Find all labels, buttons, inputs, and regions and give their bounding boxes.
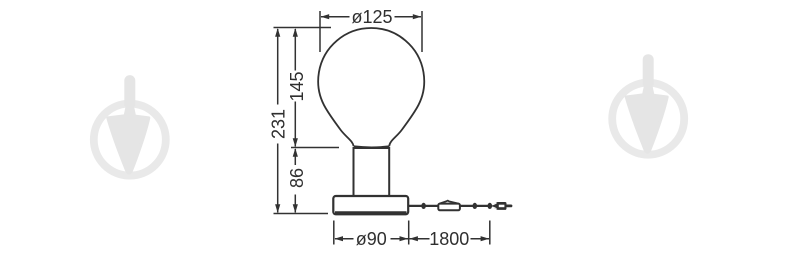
svg-text:145: 145 <box>287 71 307 101</box>
svg-text:86: 86 <box>287 168 307 188</box>
svg-text:ø90: ø90 <box>356 229 387 249</box>
svg-text:ø125: ø125 <box>351 7 392 27</box>
svg-text:1800: 1800 <box>429 229 469 249</box>
svg-text:231: 231 <box>269 109 289 139</box>
